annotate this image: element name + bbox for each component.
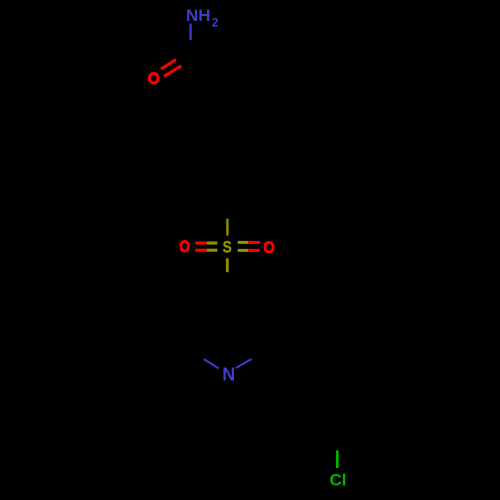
- S-C bond (olive half, below S): [226, 258, 229, 272]
- ring C-N bond left (blue half): [204, 359, 219, 369]
- svg-text:O: O: [179, 238, 190, 257]
- svg-text:2: 2: [212, 16, 219, 30]
- C=O double bond line 2: [164, 66, 181, 77]
- ring C-N bond right (blue half): [236, 359, 252, 368]
- C-Cl bond (green half): [336, 450, 339, 468]
- S=O right double bond upper: olive half: [238, 241, 248, 244]
- S=O right double bond lower: olive half: [238, 249, 248, 252]
- C=O double bond line 1: [161, 60, 176, 70]
- svg-text:Cl: Cl: [330, 471, 347, 490]
- N-C(=O) bond (blue half): [190, 24, 192, 41]
- S=O left double bond lower: red half: [195, 249, 206, 252]
- aryl-S bond (olive half, above S): [226, 219, 228, 236]
- svg-text:NH: NH: [186, 6, 211, 25]
- S=O right double bond upper: red half: [248, 241, 260, 244]
- S=O left double bond upper: red half: [195, 241, 206, 244]
- svg-text:O: O: [263, 239, 274, 257]
- svg-text:N: N: [222, 364, 235, 384]
- S=O left double bond lower: olive half: [207, 249, 218, 252]
- svg-text:O: O: [148, 69, 160, 88]
- S=O left double bond upper: olive half: [207, 241, 218, 244]
- svg-text:S: S: [223, 238, 232, 257]
- S=O right double bond lower: red half: [248, 249, 260, 252]
